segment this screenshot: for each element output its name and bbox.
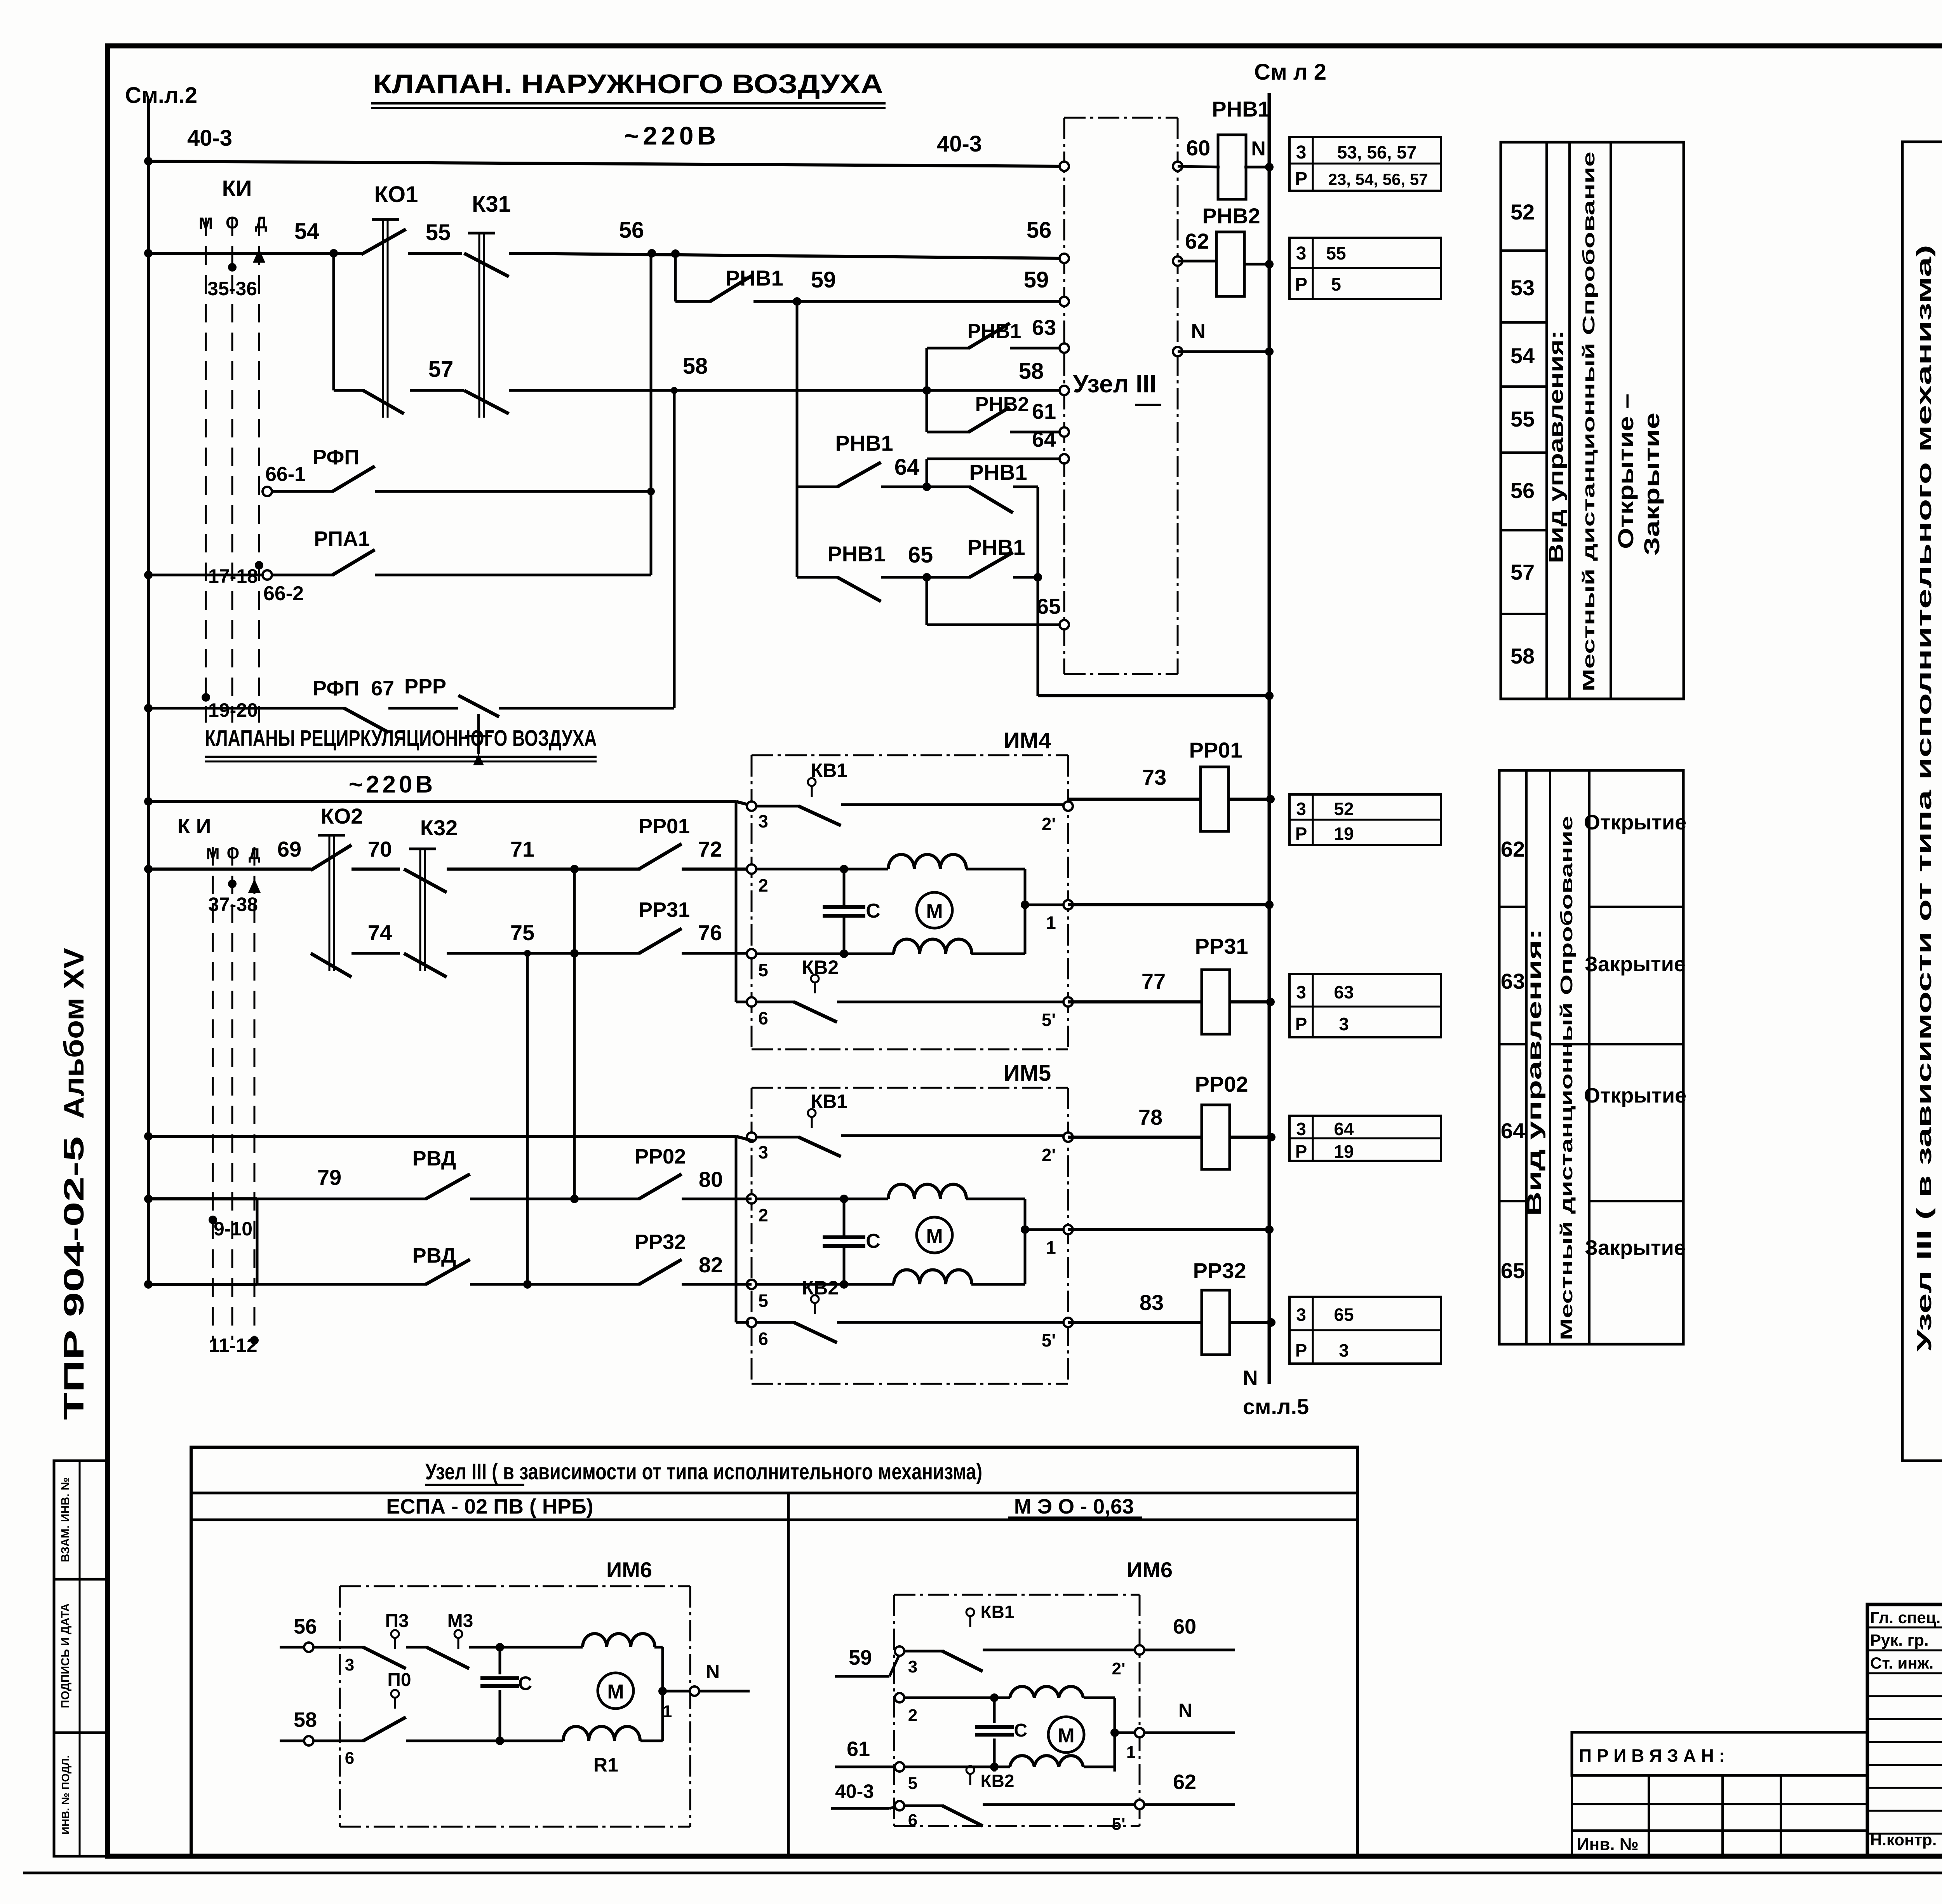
svg-text:37-38: 37-38	[208, 894, 258, 915]
ИМ5 capacitor C	[843, 1199, 846, 1237]
svg-text:62: 62	[1173, 1770, 1196, 1794]
svg-text:КО2: КО2	[321, 804, 363, 828]
svg-text:М: М	[926, 1225, 943, 1247]
table output 52	[1289, 794, 1441, 845]
svg-text:К И: К И	[177, 815, 211, 838]
svg-text:54: 54	[1510, 343, 1535, 368]
svg-text:Открытие: Открытие	[1584, 811, 1686, 834]
svg-text:3: 3	[758, 811, 768, 831]
svg-text:60: 60	[1186, 136, 1210, 160]
svg-text:56: 56	[619, 218, 644, 243]
svg-text:Закрытие: Закрытие	[1585, 953, 1686, 976]
svg-text:6: 6	[908, 1811, 917, 1830]
svg-text:55: 55	[426, 220, 451, 245]
svg-text:65: 65	[1037, 594, 1061, 618]
vertical right 2672 down	[1037, 487, 1039, 696]
svg-text:РФП: РФП	[313, 677, 359, 700]
svg-text:КВ2: КВ2	[981, 1771, 1015, 1791]
svg-text:56: 56	[294, 1615, 317, 1638]
svg-text:6: 6	[758, 1329, 768, 1349]
vertical 2386 between 63 row and 58 row	[926, 348, 928, 432]
svg-text:19: 19	[1334, 824, 1354, 844]
uzel III right outer box	[1902, 142, 1942, 1461]
row RFP 67 RRR	[144, 704, 153, 712]
svg-text:9-10: 9-10	[214, 1218, 252, 1240]
svg-text:Рук. гр.: Рук. гр.	[1870, 1631, 1929, 1649]
svg-text:5': 5'	[1112, 1815, 1126, 1834]
IM4 pin5prime wire 77 to RR31 coil	[1068, 1000, 1202, 1003]
ESPA motor	[598, 1673, 633, 1709]
ИМ4 capacitor C	[843, 869, 846, 907]
svg-text:58: 58	[294, 1708, 317, 1732]
left margin stamp boxes	[54, 1461, 108, 1579]
svg-text:2': 2'	[1042, 814, 1056, 834]
svg-text:61: 61	[1032, 399, 1056, 423]
svg-text:ИМ4: ИМ4	[1004, 728, 1051, 753]
vertical 662 joining 79 and 82 rows	[256, 1199, 259, 1284]
svg-text:64: 64	[1334, 1119, 1354, 1139]
svg-text:64: 64	[894, 455, 920, 480]
svg-text:5: 5	[758, 960, 768, 980]
svg-text:КВ1: КВ1	[981, 1602, 1015, 1622]
svg-text:РР01: РР01	[1189, 738, 1242, 762]
ИМ5 motor	[917, 1217, 952, 1253]
svg-text:59: 59	[849, 1646, 872, 1669]
svg-text:82: 82	[699, 1252, 723, 1277]
svg-text:59: 59	[1024, 267, 1049, 293]
svg-text:40-3: 40-3	[835, 1780, 874, 1802]
vertical from 58 row to RFP row	[673, 390, 676, 708]
svg-text:М: М	[926, 900, 943, 923]
svg-text:ИМ6: ИМ6	[606, 1557, 652, 1582]
svg-text:РНВ2: РНВ2	[975, 393, 1029, 416]
svg-text:3: 3	[1339, 1340, 1349, 1360]
vertical 2052 from 59 row down to RNV1-64 row	[796, 301, 799, 487]
row 74 75 RR31 76	[352, 952, 400, 955]
row RNV1 64 RNV1	[797, 486, 839, 488]
svg-text:РВД: РВД	[412, 1244, 456, 1267]
svg-text:РНВ2: РНВ2	[1202, 204, 1260, 228]
svg-text:65: 65	[908, 542, 933, 568]
svg-text:КВ1: КВ1	[811, 1090, 847, 1112]
svg-text:Закрытие: Закрытие	[1585, 1236, 1686, 1259]
svg-text:N: N	[1178, 1700, 1192, 1721]
svg-text:С: С	[866, 1230, 881, 1252]
ИМ4 KV2 contact row	[757, 1001, 795, 1003]
svg-text:2': 2'	[1112, 1659, 1126, 1678]
svg-text:1: 1	[663, 1702, 672, 1721]
svg-text:5': 5'	[1042, 1330, 1056, 1350]
svg-text:5: 5	[908, 1774, 917, 1793]
row 66-2 RPA1	[144, 571, 153, 579]
svg-text:К32: К32	[420, 815, 458, 840]
vertical to pin6 IM4	[735, 801, 738, 1002]
svg-text:РПА1: РПА1	[314, 527, 370, 550]
svg-text:61: 61	[847, 1737, 870, 1761]
svg-text:РР32: РР32	[635, 1230, 686, 1254]
svg-text:3: 3	[1296, 982, 1306, 1002]
row RNV2 61 terminal	[927, 431, 970, 434]
svg-text:Узел III ( в зависимости от ти: Узел III ( в зависимости от типа исполни…	[425, 1459, 982, 1484]
row RNV1 65 RNV1	[796, 487, 799, 577]
svg-text:1: 1	[1126, 1743, 1136, 1762]
svg-text:71: 71	[510, 837, 534, 861]
IM5 pin2prime wire 78 to RR02 coil	[1068, 1136, 1202, 1139]
svg-text:77: 77	[1142, 969, 1166, 993]
svg-text:М3: М3	[447, 1611, 473, 1631]
svg-text:11-12: 11-12	[209, 1334, 257, 1356]
svg-text:53: 53	[1510, 275, 1535, 300]
ИМ4 pins	[747, 801, 756, 811]
left vertical supply bus	[147, 99, 150, 1284]
svg-text:КВ2: КВ2	[802, 956, 839, 978]
svg-text:3: 3	[345, 1655, 354, 1674]
row RNV1 63 terminal	[927, 347, 970, 350]
svg-text:5: 5	[758, 1291, 768, 1311]
privyazan box	[1572, 1732, 1867, 1775]
svg-text:73: 73	[1142, 765, 1166, 789]
svg-text:N: N	[1191, 320, 1206, 343]
row to IM5 pin3	[144, 1132, 153, 1141]
sheet edge line	[23, 1872, 1942, 1874]
svg-text:65: 65	[1334, 1305, 1354, 1325]
svg-text:РР32: РР32	[1193, 1258, 1246, 1283]
svg-text:59: 59	[811, 267, 836, 293]
ИМ5 row pin5 with bottom inductor	[757, 1283, 894, 1286]
svg-text:К31: К31	[472, 192, 511, 217]
ИМ4 KV1 contact row	[757, 805, 800, 808]
svg-text:П Р И В Я З А Н :: П Р И В Я З А Н :	[1579, 1745, 1725, 1766]
svg-text:52: 52	[1510, 200, 1535, 224]
branch from node 54 down	[332, 253, 335, 390]
svg-text:Р: Р	[1295, 824, 1307, 844]
branch 56 to RNV1 59 row	[674, 253, 677, 301]
svg-text:23, 54, 56, 57: 23, 54, 56, 57	[1328, 170, 1428, 188]
svg-text:64: 64	[1501, 1118, 1525, 1143]
wire 40-3 top horizontal	[144, 157, 153, 165]
row 64 terminal link	[927, 458, 1064, 460]
svg-text:5: 5	[1331, 274, 1341, 294]
svg-text:2: 2	[758, 875, 768, 895]
svg-text:Д: Д	[255, 213, 267, 232]
right N bus vertical	[1268, 93, 1271, 1384]
svg-text:2': 2'	[1042, 1145, 1056, 1165]
svg-text:53, 56, 57: 53, 56, 57	[1337, 142, 1417, 162]
svg-text:Ст. инж.: Ст. инж.	[1870, 1654, 1933, 1672]
svg-text:Открытие –: Открытие –	[1613, 394, 1638, 549]
svg-text:3: 3	[758, 1142, 768, 1162]
svg-text:~220В: ~220В	[624, 121, 720, 150]
svg-text:РНВ1: РНВ1	[835, 431, 893, 455]
wire to N bus bottom of uzel III	[1038, 694, 1269, 697]
table outputs 55-5	[1289, 238, 1441, 299]
svg-text:Н.контр.: Н.контр.	[1870, 1831, 1937, 1849]
svg-text:60: 60	[1173, 1615, 1196, 1638]
svg-text:ИНВ. № ПОДЛ.: ИНВ. № ПОДЛ.	[59, 1755, 71, 1834]
rung 54 horizontal	[144, 249, 153, 258]
svg-text:М: М	[607, 1681, 624, 1703]
svg-text:РР31: РР31	[1195, 934, 1248, 958]
svg-text:2: 2	[908, 1706, 917, 1725]
svg-text:Закрытие: Закрытие	[1639, 413, 1664, 556]
contact KO1	[372, 218, 399, 221]
svg-text:62: 62	[1501, 837, 1525, 861]
svg-text:3: 3	[1339, 1014, 1349, 1034]
svg-text:63: 63	[1334, 982, 1354, 1002]
svg-text:КВ1: КВ1	[811, 760, 847, 781]
svg-text:РР02: РР02	[635, 1145, 686, 1168]
svg-text:КВ2: КВ2	[802, 1277, 839, 1299]
svg-text:РР02: РР02	[1195, 1072, 1248, 1096]
svg-text:63: 63	[1501, 969, 1525, 993]
vertical joints for lower rows	[573, 869, 576, 1199]
svg-text:70: 70	[368, 837, 392, 861]
svg-text:1: 1	[1046, 913, 1056, 933]
svg-text:ИМ5: ИМ5	[1004, 1061, 1051, 1086]
svg-text:3: 3	[1296, 799, 1306, 819]
svg-text:М Э О - 0,63: М Э О - 0,63	[1014, 1495, 1134, 1518]
svg-text:19-20: 19-20	[208, 699, 258, 721]
svg-text:Узел III: Узел III	[1073, 370, 1157, 398]
svg-text:КЛАПАН. НАРУЖНОГО ВОЗДУХА: КЛАПАН. НАРУЖНОГО ВОЗДУХА	[373, 69, 883, 99]
N row from uzel III	[1178, 350, 1269, 353]
uzel III terminals	[1060, 162, 1069, 171]
ИМ5 pins	[747, 1132, 756, 1142]
svg-text:Р: Р	[1295, 169, 1307, 189]
svg-text:56: 56	[1510, 478, 1535, 503]
svg-text:Местный дистанционный Спробов: Местный дистанционный Спробование	[1579, 152, 1598, 692]
MEO-0.63 motor	[1048, 1717, 1084, 1752]
svg-text:52: 52	[1334, 799, 1354, 819]
ИМ5 KV2 contact row	[757, 1321, 795, 1324]
svg-text:58: 58	[1019, 359, 1044, 384]
svg-text:3: 3	[1296, 243, 1307, 264]
svg-text:П3: П3	[385, 1611, 409, 1631]
svg-text:40-3: 40-3	[937, 131, 982, 157]
svg-text:См.л.2: См.л.2	[125, 83, 197, 108]
svg-text:Р: Р	[1295, 274, 1307, 295]
svg-text:63: 63	[1032, 315, 1056, 340]
svg-text:ЕСПА - 02 ПВ ( НРБ): ЕСПА - 02 ПВ ( НРБ)	[386, 1495, 593, 1518]
svg-text:~220В: ~220В	[349, 771, 436, 798]
svg-text:Местный дистанционный Опробов: Местный дистанционный Опробование	[1557, 816, 1576, 1340]
svg-text:5': 5'	[1042, 1010, 1056, 1030]
svg-text:С: С	[866, 900, 881, 922]
svg-text:3: 3	[1296, 1305, 1306, 1325]
table vid upravleniya 52-58	[1501, 142, 1684, 699]
svg-text:N: N	[1251, 138, 1266, 160]
svg-text:55: 55	[1510, 407, 1535, 431]
svg-text:РФП: РФП	[313, 446, 359, 469]
svg-text:67: 67	[371, 677, 394, 700]
svg-text:П0: П0	[387, 1670, 411, 1690]
svg-text:79: 79	[317, 1165, 341, 1190]
svg-text:КИ: КИ	[222, 176, 252, 201]
svg-text:N: N	[706, 1661, 720, 1683]
svg-text:80: 80	[699, 1167, 723, 1192]
svg-text:35-36: 35-36	[207, 278, 257, 300]
uzel III dashed box	[1064, 117, 1178, 119]
wire 55	[408, 252, 462, 255]
svg-text:N: N	[1243, 1366, 1258, 1390]
privyazan grid	[1572, 1774, 1867, 1777]
svg-text:С: С	[518, 1672, 532, 1694]
row 57-58	[334, 389, 365, 392]
svg-text:6: 6	[758, 1008, 768, 1028]
svg-text:РНВ1: РНВ1	[968, 320, 1021, 343]
MEO-0.63 pin2 row	[895, 1693, 904, 1702]
svg-text:РНВ1: РНВ1	[969, 460, 1027, 484]
svg-text:3: 3	[1296, 142, 1307, 163]
svg-text:3: 3	[908, 1657, 917, 1676]
table output 64	[1289, 1116, 1441, 1161]
svg-text:2: 2	[758, 1205, 768, 1225]
svg-text:76: 76	[698, 920, 722, 945]
svg-text:Р: Р	[1295, 1141, 1307, 1162]
table output 63	[1289, 974, 1441, 1037]
ИМ4 motor	[917, 892, 952, 928]
svg-text:С: С	[1014, 1720, 1028, 1741]
table output 65	[1289, 1297, 1441, 1364]
row RVD RR32 82	[144, 1280, 153, 1289]
svg-text:РВД: РВД	[412, 1147, 456, 1170]
svg-text:РР01: РР01	[639, 815, 690, 838]
svg-text:РНВ1: РНВ1	[725, 266, 783, 290]
svg-text:РНВ1: РНВ1	[967, 535, 1025, 559]
svg-text:КЛАПАНЫ РЕЦИРКУЛЯЦИОННОГО ВОЗД: КЛАПАНЫ РЕЦИРКУЛЯЦИОННОГО ВОЗДУХА	[205, 726, 597, 751]
ИМ5 KV1 contact row	[757, 1136, 800, 1139]
svg-text:57: 57	[1510, 560, 1535, 584]
svg-text:75: 75	[510, 920, 534, 945]
svg-text:см.л.5: см.л.5	[1243, 1394, 1309, 1419]
svg-text:Открытие: Открытие	[1584, 1084, 1686, 1107]
rung 69 KO2 70 KZ2 71 RR01 72	[144, 865, 153, 873]
RRR actuator symbol	[477, 714, 480, 754]
svg-text:ПОДПИСЬ И ДАТА: ПОДПИСЬ И ДАТА	[59, 1603, 72, 1708]
svg-text:ТПР 904-02-5: ТПР 904-02-5	[59, 1136, 90, 1420]
svg-text:64: 64	[1032, 427, 1056, 451]
svg-text:78: 78	[1138, 1105, 1162, 1129]
IM5 pin5prime wire 83 to RR32 coil	[1068, 1321, 1202, 1324]
svg-text:Альбом XV: Альбом XV	[59, 948, 90, 1119]
svg-text:56: 56	[1027, 218, 1052, 243]
table outputs 53-56-57	[1289, 137, 1441, 191]
ИМ5 row pin2 with capacitor and top inductor	[757, 1198, 844, 1200]
svg-text:М: М	[1058, 1725, 1074, 1747]
MEO-0.63 pin1 N out	[1115, 1732, 1135, 1734]
svg-text:19: 19	[1334, 1141, 1354, 1162]
ИМ4 row pin2 with capacitor and top inductor	[757, 868, 844, 871]
svg-text:Р: Р	[1295, 1340, 1307, 1360]
svg-text:69: 69	[277, 837, 301, 861]
svg-text:РР31: РР31	[639, 898, 690, 922]
svg-text:55: 55	[1326, 243, 1346, 263]
svg-text:Вид управления:: Вид управления:	[1523, 928, 1546, 1216]
svg-text:РНВ1: РНВ1	[827, 542, 885, 566]
svg-text:58: 58	[1510, 644, 1535, 668]
title block grid	[1867, 1604, 1942, 1856]
row 66-1 RFP	[263, 487, 272, 496]
svg-text:R1: R1	[593, 1754, 618, 1776]
MEO-0.63 capacitor	[993, 1698, 996, 1723]
bottom uzel III box	[191, 1447, 1357, 1856]
ESPA N out	[663, 1690, 694, 1693]
svg-text:См л 2: См л 2	[1254, 59, 1326, 85]
svg-text:58: 58	[683, 354, 708, 379]
svg-text:83: 83	[1140, 1290, 1164, 1315]
svg-text:66-2: 66-2	[263, 582, 304, 605]
svg-text:1: 1	[1046, 1237, 1056, 1258]
svg-text:КО1: КО1	[374, 182, 418, 207]
svg-text:Инв. №: Инв. №	[1577, 1835, 1639, 1854]
svg-text:57: 57	[428, 357, 454, 382]
svg-text:ВЗАМ. ИНВ. №: ВЗАМ. ИНВ. №	[59, 1477, 72, 1562]
svg-text:72: 72	[698, 837, 722, 861]
svg-text:ИМ6: ИМ6	[1127, 1557, 1173, 1582]
svg-text:54: 54	[294, 219, 320, 244]
IM5 pin1 wire to bus	[1068, 1228, 1269, 1231]
svg-text:6: 6	[345, 1749, 354, 1768]
svg-text:3: 3	[1296, 1119, 1306, 1139]
recirc top bus 40-3 to IM4 pin3	[144, 797, 153, 806]
svg-text:40-3: 40-3	[187, 125, 232, 151]
ESPA capacitor	[499, 1647, 501, 1674]
IM4 pin1 wire to bus	[1068, 903, 1269, 906]
65 terminal link	[926, 577, 928, 625]
svg-text:РНВ1: РНВ1	[1212, 97, 1270, 121]
wire 56 to uzel III	[509, 253, 1064, 258]
svg-text:Гл. спец.: Гл. спец.	[1870, 1608, 1940, 1627]
svg-text:62: 62	[1185, 229, 1209, 253]
svg-text:РРР: РРР	[404, 675, 446, 698]
svg-text:Узел III ( в зависимости от ти: Узел III ( в зависимости от типа исполни…	[1912, 245, 1936, 1352]
svg-text:65: 65	[1501, 1258, 1525, 1283]
svg-text:Р: Р	[1295, 1014, 1307, 1034]
vertical 1676 rung to 66 rows	[650, 253, 653, 575]
table vid upravleniya 62-65	[1499, 770, 1683, 1344]
svg-text:66-1: 66-1	[265, 463, 306, 486]
contact KZ1	[468, 232, 495, 235]
row 79 RVD RR02 80	[144, 1195, 153, 1203]
IM4 pin2prime wire 73 to RR01 coil	[1068, 798, 1201, 801]
svg-text:74: 74	[368, 920, 392, 945]
svg-text:Вид управления:: Вид управления:	[1545, 330, 1568, 563]
ИМ4 row pin5 with bottom inductor	[757, 953, 894, 955]
